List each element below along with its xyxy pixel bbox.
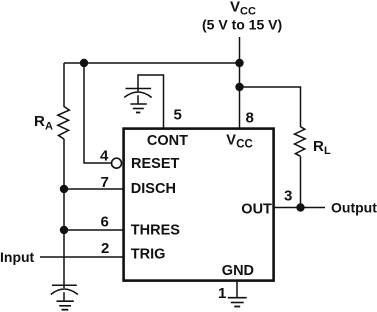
wire: RA upper segment [63, 63, 65, 107]
wire: RL lower segment to output node [300, 156, 302, 207]
svg-text:6: 6 [101, 214, 109, 231]
node: junction THRES [60, 226, 68, 234]
op-amp U1 555 timer body [124, 129, 274, 281]
svg-text:GND: GND [222, 263, 254, 279]
resistor RA [58, 107, 70, 140]
node: junction DISCH [60, 185, 68, 193]
svg-text:(5 V to 15 V): (5 V to 15 V) [202, 17, 282, 33]
wire: RESET branch from top rail to pin 4 [84, 63, 112, 163]
pin label VCC (pin 8 inside) [226, 133, 253, 151]
wire: CONT pin 5 to bypass capacitor [138, 75, 164, 128]
svg-text:A: A [45, 121, 53, 133]
svg-text:CONT: CONT [147, 133, 188, 149]
svg-text:V: V [230, 0, 240, 16]
svg-text:7: 7 [101, 174, 109, 191]
ground (timing capacitor) [57, 301, 74, 310]
wire: Input to TRIG pin 2 [40, 256, 123, 258]
label RL [313, 138, 331, 157]
svg-text:R: R [313, 138, 324, 155]
wire: RA lower segment to timing capacitor [63, 139, 65, 288]
svg-text:4: 4 [100, 147, 109, 164]
svg-text:DISCH: DISCH [131, 181, 176, 197]
node: junction RESET branch on top rail [80, 59, 88, 67]
svg-text:RESET: RESET [131, 156, 179, 172]
svg-text:L: L [324, 145, 331, 157]
pin 4 inversion bubble [112, 158, 122, 168]
capacitor C2 (timing capacitor) [51, 285, 78, 301]
resistor RL [295, 127, 306, 157]
svg-text:R: R [34, 113, 45, 130]
svg-text:CC: CC [236, 139, 253, 151]
wire: DISCH pin 7 [64, 188, 123, 190]
svg-text:TRIG: TRIG [131, 247, 166, 263]
wire: THRES pin 6 [64, 229, 123, 231]
wire: GND pin 1 [236, 281, 238, 298]
svg-text:OUT: OUT [241, 202, 272, 218]
net label VCC (supply title) [230, 0, 256, 18]
svg-text:Output: Output [331, 200, 377, 216]
svg-text:V: V [226, 133, 236, 149]
svg-text:2: 2 [101, 240, 109, 257]
svg-text:8: 8 [246, 110, 254, 127]
node: junction VCC rail / RL branch [235, 83, 243, 91]
svg-text:THRES: THRES [131, 223, 180, 239]
svg-text:Input: Input [0, 249, 35, 265]
wire: branch to RL [240, 87, 301, 127]
node: output junction [296, 203, 304, 211]
svg-text:3: 3 [284, 187, 292, 204]
wire: VCC supply vertical drop to pin 8 [239, 37, 241, 128]
node: junction VCC rail / top rail [235, 59, 243, 67]
svg-text:5: 5 [174, 107, 182, 124]
ground (CONT bypass capacitor) [130, 104, 146, 113]
ground (GND pin 1) [228, 298, 247, 307]
wire: OUT pin 3 to Output [274, 207, 325, 209]
capacitor C1 (CONT bypass) [124, 89, 151, 105]
label RA [34, 113, 53, 133]
wire: top horizontal rail to RA branch [64, 62, 240, 64]
svg-text:1: 1 [218, 285, 226, 302]
